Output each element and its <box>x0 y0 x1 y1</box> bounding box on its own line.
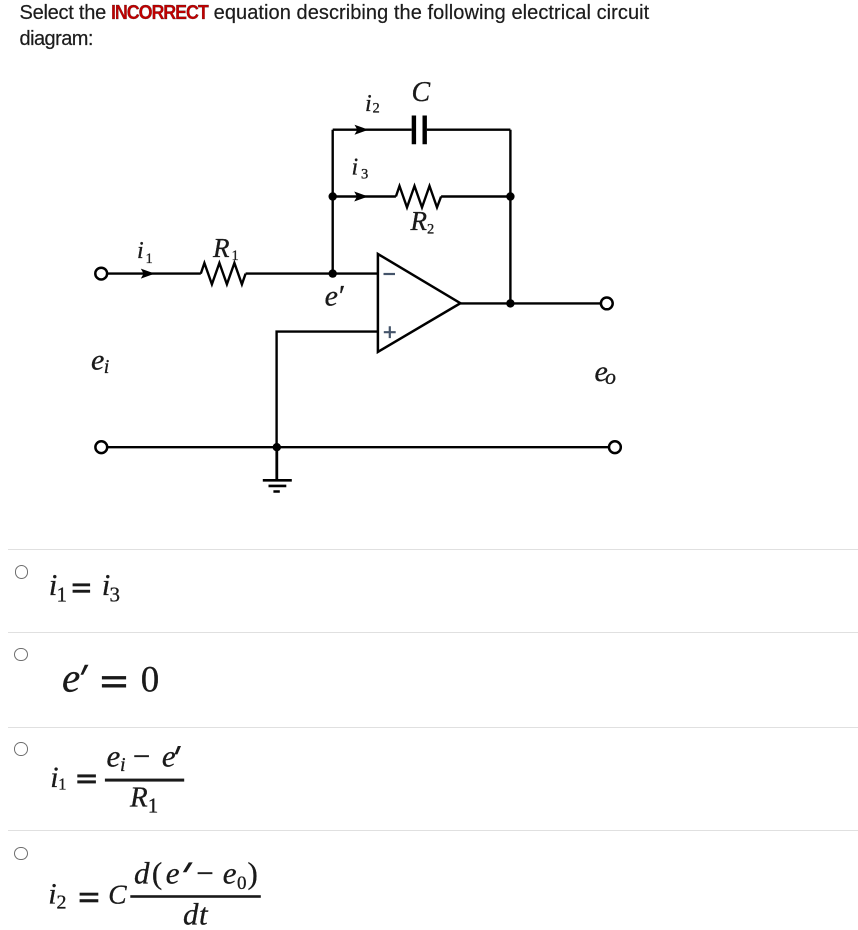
option 4 equation i2 = C d(e'-e0)/dt <box>0 845 300 930</box>
bottom left terminal <box>95 441 107 453</box>
capacitor C <box>414 116 425 145</box>
svg-text:i1: i1 <box>137 238 153 267</box>
svg-text:i2: i2 <box>365 91 380 117</box>
option 3 equation i1 = (ei - e')/R1 <box>0 735 260 830</box>
wire input to op-amp <box>108 272 378 274</box>
ground <box>275 447 278 480</box>
node e' junction dot <box>329 269 337 277</box>
resistor R2 <box>396 186 441 207</box>
svg-text:R1: R1 <box>212 233 239 264</box>
svg-text:i3: i3 <box>352 155 369 183</box>
arrow i2 <box>355 125 369 135</box>
option 2 equation e' = 0 <box>0 650 220 710</box>
question text <box>20 0 650 53</box>
wire top loop with capacitor <box>333 128 511 130</box>
wire output <box>460 302 600 304</box>
svg-text:ei−e: ei−e <box>107 739 176 777</box>
junction dot left i3 <box>329 192 337 200</box>
svg-text:eo: eo <box>595 355 617 389</box>
wire left feedback vertical <box>332 130 334 274</box>
option divider 2 <box>8 632 858 633</box>
op-amp minus sign <box>384 273 396 275</box>
input terminal ei <box>95 268 107 280</box>
wire i3 branch <box>333 195 511 197</box>
op-amp U1 <box>378 254 461 352</box>
svg-text:i1i3: i1i3 <box>49 567 120 607</box>
svg-text:i1: i1 <box>50 761 66 794</box>
circuit schematic svg <box>0 0 660 520</box>
junction dot right i3 <box>506 192 514 200</box>
option 4 radio <box>14 847 28 861</box>
resistor R1 <box>201 263 246 284</box>
option 2 radio <box>14 648 28 662</box>
svg-text:R1: R1 <box>129 782 158 818</box>
junction dot ground <box>273 443 281 451</box>
option divider 1 <box>8 549 858 550</box>
output terminal eo <box>601 298 613 310</box>
option 1 equation i1 = i3 <box>0 560 200 620</box>
op-amp plus sign <box>384 326 396 338</box>
svg-text:dt: dt <box>183 897 209 930</box>
wire noninverting input <box>277 332 378 448</box>
option divider 4 <box>8 830 858 831</box>
svg-text:C: C <box>412 77 431 108</box>
arrow i1 <box>141 269 155 279</box>
option 1 radio <box>15 565 29 579</box>
option divider 3 <box>8 727 858 728</box>
wire right feedback vertical <box>509 130 511 304</box>
junction dot output <box>506 299 514 307</box>
arrow i3 <box>354 192 368 202</box>
svg-text:e′: e′ <box>325 279 344 312</box>
svg-text:d(e−e0): d(e−e0) <box>134 856 258 895</box>
svg-text:R2: R2 <box>410 206 435 238</box>
option 3 radio <box>14 742 28 756</box>
svg-text:ei: ei <box>91 344 109 378</box>
wire bottom <box>108 446 609 448</box>
bottom right terminal <box>609 441 621 453</box>
